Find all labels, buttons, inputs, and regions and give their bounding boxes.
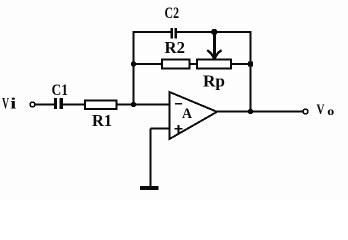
wire from C1 to R1 bbox=[63, 104, 85, 106]
ground bbox=[140, 186, 159, 190]
node: junction of output and right riser bbox=[248, 109, 253, 114]
wire: top feedback branch left segment (to C2) bbox=[133, 31, 171, 33]
op-amp U A bbox=[170, 92, 218, 139]
wire: right vertical feedback riser bbox=[250, 31, 252, 111]
resistor R2 bbox=[162, 60, 190, 69]
svg-text:C1: C1 bbox=[52, 82, 69, 99]
svg-text:o: o bbox=[327, 106, 334, 118]
wire: left vertical feedback riser bbox=[133, 31, 135, 104]
svg-text:Rp: Rp bbox=[203, 72, 225, 91]
wire between R2 and Rp bbox=[190, 63, 198, 65]
svg-text:C2: C2 bbox=[165, 5, 180, 22]
svg-text:A: A bbox=[182, 106, 192, 122]
op-amp inverting input mark bbox=[175, 103, 182, 105]
output terminal Vo bbox=[303, 109, 308, 114]
svg-text:R2: R2 bbox=[165, 38, 186, 57]
capacitor C2 bbox=[170, 28, 177, 39]
node: junction of R2 branch and right riser bbox=[248, 62, 253, 67]
svg-text:V: V bbox=[317, 102, 325, 118]
svg-text:i: i bbox=[10, 96, 17, 113]
op-amp non-inverting input mark bbox=[175, 125, 183, 133]
wire from Vi terminal to C1 bbox=[35, 104, 54, 106]
node: junction of input wire and feedback branch bbox=[131, 102, 136, 107]
svg-text:V: V bbox=[2, 96, 9, 113]
potentiometer Rp body bbox=[197, 60, 231, 69]
wire: top feedback branch right segment (C2 to right riser) bbox=[177, 31, 252, 33]
wire: middle feedback branch from left riser to R2 bbox=[134, 63, 163, 65]
wire from Rp to right riser bbox=[231, 63, 251, 65]
svg-text:R1: R1 bbox=[92, 111, 112, 130]
node: junction of left riser and R2 branch bbox=[131, 61, 136, 66]
input terminal Vi bbox=[30, 102, 35, 107]
potentiometer Rp wiper arrow bbox=[207, 32, 221, 59]
wire: op-amp output bbox=[216, 111, 303, 113]
node: wiper tap on top branch bbox=[211, 29, 217, 35]
wire from R1 to op-amp inverting input bbox=[117, 104, 170, 106]
capacitor C1 bbox=[54, 98, 63, 109]
resistor R1 bbox=[85, 101, 117, 110]
wire: ground drop bbox=[150, 129, 152, 188]
wire: non-inverting input bbox=[151, 128, 170, 130]
